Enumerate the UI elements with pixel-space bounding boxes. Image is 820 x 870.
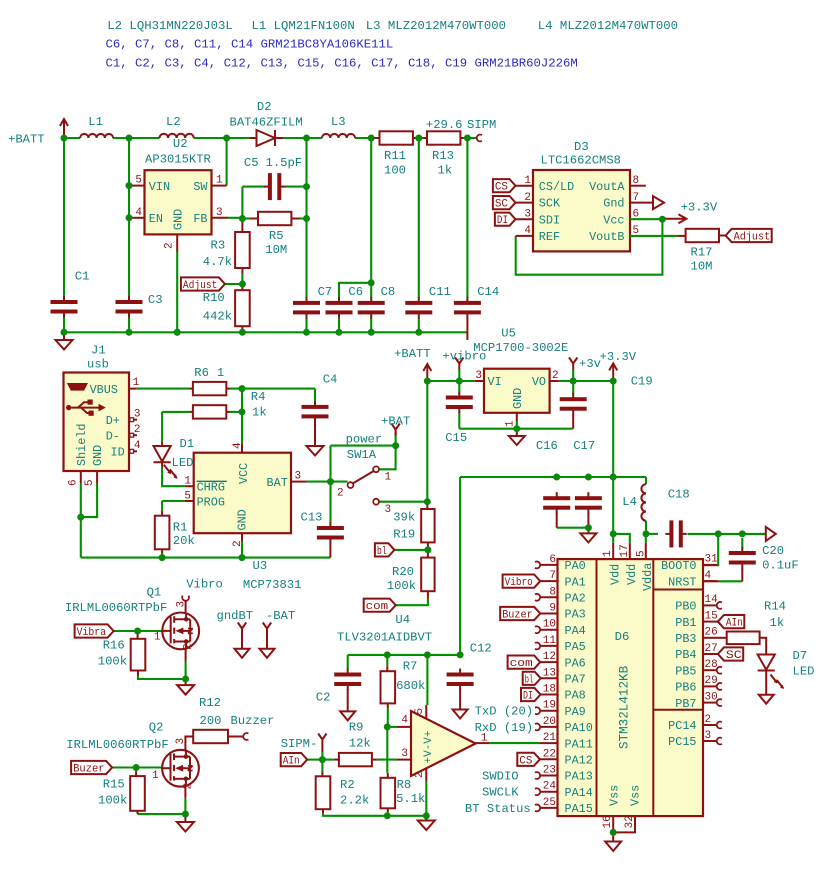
svg-text:L4: L4 bbox=[622, 495, 637, 509]
svg-text:VCC: VCC bbox=[237, 463, 251, 484]
svg-text:11: 11 bbox=[543, 635, 557, 647]
svg-text:PA13: PA13 bbox=[565, 770, 593, 784]
svg-text:C18: C18 bbox=[668, 487, 690, 501]
svg-text:bl: bl bbox=[377, 546, 387, 558]
svg-text:1k: 1k bbox=[252, 406, 267, 420]
svg-text:U5: U5 bbox=[501, 326, 516, 340]
svg-text:GND: GND bbox=[91, 445, 105, 466]
svg-text:25: 25 bbox=[543, 797, 556, 809]
svg-text:BT Status: BT Status bbox=[465, 802, 531, 816]
svg-text:R14: R14 bbox=[764, 600, 786, 614]
svg-text:BOOT0: BOOT0 bbox=[661, 559, 696, 573]
svg-text:C7: C7 bbox=[318, 285, 333, 299]
svg-text:+29.6: +29.6 bbox=[426, 118, 463, 132]
svg-text:SIPM-: SIPM- bbox=[281, 737, 318, 751]
svg-text:Vibro: Vibro bbox=[186, 578, 223, 592]
svg-text:R5: R5 bbox=[269, 229, 284, 243]
svg-text:3: 3 bbox=[524, 208, 531, 220]
svg-text:R12: R12 bbox=[199, 696, 221, 710]
svg-text:2: 2 bbox=[705, 714, 712, 726]
svg-text:+BATT: +BATT bbox=[394, 347, 431, 361]
svg-text:5: 5 bbox=[184, 490, 191, 502]
svg-text:R16: R16 bbox=[103, 638, 125, 652]
svg-text:0.1uF: 0.1uF bbox=[762, 559, 799, 573]
svg-text:Vdd: Vdd bbox=[609, 564, 623, 585]
svg-text:D1: D1 bbox=[180, 437, 195, 451]
svg-text:4: 4 bbox=[705, 570, 712, 582]
svg-text:C5: C5 bbox=[244, 156, 259, 170]
svg-text:SWCLK: SWCLK bbox=[482, 786, 519, 800]
svg-text:5.1k: 5.1k bbox=[396, 792, 425, 806]
svg-text:R4: R4 bbox=[251, 390, 266, 404]
svg-text:Vss: Vss bbox=[629, 785, 643, 806]
svg-text:C1, C2, C3, C4, C12, C13, C15,: C1, C2, C3, C4, C12, C13, C15, C16, C17,… bbox=[106, 56, 578, 70]
svg-text:CS: CS bbox=[495, 182, 508, 194]
svg-text:VoutA: VoutA bbox=[589, 180, 625, 194]
svg-text:PA2: PA2 bbox=[565, 592, 586, 606]
svg-text:GND: GND bbox=[171, 209, 185, 230]
svg-text:3: 3 bbox=[401, 748, 408, 760]
svg-text:L3 MLZ2012M470WT000: L3 MLZ2012M470WT000 bbox=[366, 19, 506, 33]
svg-text:R13: R13 bbox=[432, 149, 454, 163]
svg-text:IRLML0060RTPbF: IRLML0060RTPbF bbox=[65, 601, 167, 615]
svg-text:27: 27 bbox=[705, 643, 718, 655]
svg-text:3: 3 bbox=[175, 738, 187, 745]
svg-text:PA4: PA4 bbox=[565, 624, 586, 638]
svg-text:PA11: PA11 bbox=[565, 737, 593, 751]
svg-text:Gnd: Gnd bbox=[603, 197, 624, 211]
svg-text:Shield: Shield bbox=[75, 424, 89, 466]
svg-text:19: 19 bbox=[543, 700, 556, 712]
svg-text:PA15: PA15 bbox=[565, 802, 593, 816]
svg-text:16: 16 bbox=[602, 815, 614, 828]
svg-text:+vibro: +vibro bbox=[442, 350, 486, 364]
svg-text:MCP73831: MCP73831 bbox=[243, 578, 302, 592]
svg-text:L2: L2 bbox=[166, 115, 181, 129]
svg-text:2: 2 bbox=[164, 242, 176, 249]
svg-text:Q2: Q2 bbox=[149, 720, 164, 734]
svg-text:1k: 1k bbox=[770, 616, 785, 630]
svg-text:30: 30 bbox=[705, 691, 718, 703]
svg-text:D6: D6 bbox=[615, 630, 630, 644]
svg-text:PB7: PB7 bbox=[675, 697, 696, 711]
svg-text:PB5: PB5 bbox=[675, 664, 696, 678]
svg-text:3: 3 bbox=[134, 409, 141, 421]
svg-text:14: 14 bbox=[705, 594, 719, 606]
svg-text:GND: GND bbox=[236, 509, 250, 530]
svg-text:22: 22 bbox=[543, 748, 556, 760]
svg-text:LTC1662CMS8: LTC1662CMS8 bbox=[541, 154, 621, 168]
svg-text:Vss: Vss bbox=[608, 785, 622, 806]
svg-text:PROG: PROG bbox=[197, 495, 225, 509]
svg-text:C4: C4 bbox=[323, 373, 338, 387]
svg-text:PA0: PA0 bbox=[565, 559, 586, 573]
svg-text:C14: C14 bbox=[477, 285, 499, 299]
svg-text:5: 5 bbox=[636, 550, 648, 557]
svg-text:VoutB: VoutB bbox=[589, 230, 624, 244]
svg-text:20k: 20k bbox=[173, 534, 195, 548]
svg-text:Vibro: Vibro bbox=[505, 577, 533, 589]
svg-text:PA8: PA8 bbox=[565, 689, 586, 703]
svg-text:C6: C6 bbox=[348, 285, 363, 299]
svg-text:VO: VO bbox=[532, 375, 546, 389]
svg-text:SW1A: SW1A bbox=[347, 448, 377, 462]
svg-text:13: 13 bbox=[543, 667, 556, 679]
svg-text:BAT: BAT bbox=[267, 476, 288, 490]
svg-text:PB4: PB4 bbox=[675, 648, 696, 662]
svg-text:5: 5 bbox=[135, 175, 142, 187]
svg-text:SCK: SCK bbox=[539, 197, 561, 211]
svg-text:AP3015KTR: AP3015KTR bbox=[145, 153, 211, 167]
svg-text:TxD (20): TxD (20) bbox=[475, 705, 534, 719]
svg-text:LED: LED bbox=[172, 456, 194, 470]
svg-text:12: 12 bbox=[543, 651, 556, 663]
svg-text:3: 3 bbox=[176, 601, 188, 608]
svg-text:EN: EN bbox=[149, 212, 163, 226]
svg-text:1: 1 bbox=[505, 420, 517, 427]
svg-text:28: 28 bbox=[705, 659, 718, 671]
svg-text:6: 6 bbox=[68, 479, 80, 486]
svg-text:Adjust: Adjust bbox=[183, 280, 218, 292]
svg-text:1: 1 bbox=[385, 472, 392, 484]
svg-text:4: 4 bbox=[232, 442, 244, 449]
svg-text:R15: R15 bbox=[103, 778, 125, 792]
svg-text:D7: D7 bbox=[793, 649, 808, 663]
svg-text:2: 2 bbox=[183, 643, 195, 650]
svg-text:10: 10 bbox=[543, 619, 556, 631]
svg-text:100k: 100k bbox=[98, 654, 127, 668]
svg-text:6: 6 bbox=[549, 554, 556, 566]
svg-text:5: 5 bbox=[84, 479, 96, 486]
svg-text:4: 4 bbox=[135, 207, 142, 219]
svg-text:PA5: PA5 bbox=[565, 640, 586, 654]
svg-text:1: 1 bbox=[216, 175, 223, 187]
svg-text:C16: C16 bbox=[536, 439, 558, 453]
svg-text:200: 200 bbox=[200, 714, 222, 728]
svg-text:TLV3201AIDBVT: TLV3201AIDBVT bbox=[337, 630, 432, 644]
svg-text:R3: R3 bbox=[211, 238, 226, 252]
svg-text:L1 LQM21FN100N: L1 LQM21FN100N bbox=[252, 19, 355, 33]
svg-text:VIN: VIN bbox=[149, 180, 170, 194]
svg-text:DI: DI bbox=[497, 215, 508, 227]
svg-text:Adjust: Adjust bbox=[734, 232, 771, 244]
svg-text:L1: L1 bbox=[88, 115, 103, 129]
svg-text:Q1: Q1 bbox=[147, 586, 162, 600]
svg-text:PB1: PB1 bbox=[675, 616, 696, 630]
svg-text:2.2k: 2.2k bbox=[340, 794, 369, 808]
svg-text:SWDIO: SWDIO bbox=[482, 770, 519, 784]
svg-text:bl: bl bbox=[525, 674, 534, 686]
svg-text:VI: VI bbox=[488, 375, 502, 389]
svg-text:1: 1 bbox=[481, 733, 488, 745]
svg-text:21: 21 bbox=[543, 732, 557, 744]
svg-text:-BAT: -BAT bbox=[266, 609, 295, 623]
svg-text:+BAT: +BAT bbox=[381, 414, 410, 428]
svg-text:26: 26 bbox=[705, 627, 718, 639]
svg-text:9: 9 bbox=[549, 603, 556, 615]
svg-text:C17: C17 bbox=[573, 439, 595, 453]
svg-text:Buzer: Buzer bbox=[502, 610, 533, 622]
svg-text:PB6: PB6 bbox=[675, 681, 696, 695]
svg-text:24: 24 bbox=[543, 781, 557, 793]
svg-text:J1: J1 bbox=[91, 344, 106, 358]
svg-text:ID: ID bbox=[111, 446, 125, 460]
svg-text:1: 1 bbox=[524, 175, 531, 187]
svg-text:4.7k: 4.7k bbox=[203, 255, 232, 269]
svg-text:STM32L412KB: STM32L412KB bbox=[618, 665, 632, 749]
svg-text:R11: R11 bbox=[384, 149, 406, 163]
svg-text:U3: U3 bbox=[253, 559, 268, 573]
svg-text:R8: R8 bbox=[397, 778, 412, 792]
svg-text:SIPM: SIPM bbox=[467, 118, 496, 132]
svg-text:IRLML0060RTPbF: IRLML0060RTPbF bbox=[66, 738, 168, 752]
svg-text:NRST: NRST bbox=[668, 575, 696, 589]
svg-text:5: 5 bbox=[414, 708, 426, 715]
svg-text:PB0: PB0 bbox=[675, 600, 696, 614]
svg-text:PA9: PA9 bbox=[565, 705, 586, 719]
svg-text:D-: D- bbox=[106, 430, 120, 444]
svg-text:2: 2 bbox=[182, 783, 194, 790]
svg-text:2: 2 bbox=[524, 192, 531, 204]
svg-text:6: 6 bbox=[633, 208, 640, 220]
svg-text:8: 8 bbox=[549, 586, 556, 598]
svg-text:R7: R7 bbox=[403, 659, 418, 673]
svg-text:C19: C19 bbox=[631, 374, 653, 388]
svg-text:2: 2 bbox=[232, 540, 244, 547]
svg-text:3: 3 bbox=[475, 370, 482, 382]
svg-text:usb: usb bbox=[87, 358, 109, 372]
svg-text:R17: R17 bbox=[691, 245, 713, 259]
svg-text:Vcc: Vcc bbox=[603, 213, 624, 227]
svg-text:PA12: PA12 bbox=[565, 754, 593, 768]
svg-text:R20: R20 bbox=[392, 565, 414, 579]
svg-text:R6: R6 bbox=[194, 366, 209, 380]
svg-text:4: 4 bbox=[524, 225, 531, 237]
svg-text:29: 29 bbox=[705, 675, 718, 687]
svg-text:15: 15 bbox=[705, 610, 718, 622]
svg-text:4: 4 bbox=[401, 715, 408, 727]
svg-text:2: 2 bbox=[414, 771, 426, 778]
svg-text:L2 LQH31MN220J03L: L2 LQH31MN220J03L bbox=[107, 19, 232, 33]
svg-text:CS: CS bbox=[519, 755, 532, 767]
svg-text:R19: R19 bbox=[393, 527, 415, 541]
svg-text:1k: 1k bbox=[438, 164, 453, 178]
svg-text:com: com bbox=[510, 658, 533, 670]
svg-text:CS/LD: CS/LD bbox=[539, 180, 574, 194]
svg-text:C8: C8 bbox=[381, 285, 396, 299]
svg-text:D3: D3 bbox=[574, 140, 589, 154]
svg-text:PC15: PC15 bbox=[668, 735, 696, 749]
svg-text:C15: C15 bbox=[445, 431, 467, 445]
svg-text:100k: 100k bbox=[387, 579, 416, 593]
svg-text:1: 1 bbox=[602, 550, 614, 557]
svg-text:7: 7 bbox=[633, 192, 640, 204]
svg-text:4: 4 bbox=[134, 440, 141, 452]
svg-text:31: 31 bbox=[705, 554, 719, 566]
svg-text:REF: REF bbox=[539, 230, 560, 244]
svg-text:39k: 39k bbox=[393, 510, 415, 524]
svg-text:+3.3V: +3.3V bbox=[600, 350, 637, 364]
svg-text:PA10: PA10 bbox=[565, 721, 593, 735]
svg-text:C2: C2 bbox=[316, 690, 331, 704]
svg-text:+3v: +3v bbox=[579, 357, 601, 371]
svg-text:C13: C13 bbox=[301, 511, 323, 525]
svg-text:SC: SC bbox=[726, 650, 742, 662]
svg-text:32: 32 bbox=[624, 815, 636, 828]
svg-text:C20: C20 bbox=[762, 544, 784, 558]
svg-text:100: 100 bbox=[384, 164, 406, 178]
svg-text:C3: C3 bbox=[148, 293, 163, 307]
svg-text:U4: U4 bbox=[395, 613, 410, 627]
svg-text:L3: L3 bbox=[331, 115, 346, 129]
svg-text:18: 18 bbox=[543, 684, 556, 696]
svg-text:10M: 10M bbox=[265, 243, 287, 257]
svg-text:LED: LED bbox=[793, 665, 815, 679]
svg-text:R9: R9 bbox=[349, 720, 364, 734]
svg-text:8: 8 bbox=[633, 175, 640, 187]
svg-text:7: 7 bbox=[549, 570, 556, 582]
svg-text:Buzzer: Buzzer bbox=[231, 714, 275, 728]
svg-text:L4 MLZ2012M470WT000: L4 MLZ2012M470WT000 bbox=[538, 19, 678, 33]
svg-text:FB: FB bbox=[193, 212, 207, 226]
svg-text:R1: R1 bbox=[173, 520, 188, 534]
svg-text:R2: R2 bbox=[340, 778, 355, 792]
svg-text:20: 20 bbox=[543, 716, 556, 728]
svg-text:PA1: PA1 bbox=[565, 575, 586, 589]
svg-text:PC14: PC14 bbox=[668, 719, 696, 733]
svg-text:C1: C1 bbox=[75, 269, 90, 283]
svg-text:2: 2 bbox=[134, 424, 141, 436]
svg-text:C6, C7, C8, C11, C14 GRM21BC8Y: C6, C7, C8, C11, C14 GRM21BC8YA106KE11L bbox=[106, 38, 394, 52]
svg-text:1: 1 bbox=[217, 366, 224, 380]
svg-text:+V-V+: +V-V+ bbox=[423, 730, 435, 763]
svg-text:2: 2 bbox=[337, 488, 344, 500]
svg-text:SDI: SDI bbox=[539, 213, 560, 227]
svg-text:10M: 10M bbox=[691, 260, 713, 274]
svg-text:power: power bbox=[346, 433, 383, 447]
svg-text:AIn: AIn bbox=[283, 756, 300, 768]
svg-text:Buzer: Buzer bbox=[73, 764, 105, 776]
svg-text:MCP1700-3002E: MCP1700-3002E bbox=[473, 341, 568, 355]
svg-text:CHRG: CHRG bbox=[197, 480, 225, 494]
svg-text:3: 3 bbox=[385, 504, 392, 516]
svg-text:Vdd: Vdd bbox=[625, 564, 639, 585]
svg-text:DI: DI bbox=[523, 691, 533, 703]
svg-text:SC: SC bbox=[495, 199, 508, 211]
svg-text:R10: R10 bbox=[203, 291, 225, 305]
svg-text:+BATT: +BATT bbox=[8, 133, 45, 147]
svg-text:BAT46ZFILM: BAT46ZFILM bbox=[230, 116, 303, 130]
svg-text:1: 1 bbox=[152, 770, 159, 782]
svg-text:C11: C11 bbox=[429, 285, 451, 299]
svg-text:5: 5 bbox=[633, 225, 640, 237]
svg-text:SW: SW bbox=[193, 180, 208, 194]
svg-text:PA7: PA7 bbox=[565, 673, 586, 687]
svg-text:C12: C12 bbox=[470, 641, 492, 655]
svg-text:680k: 680k bbox=[396, 679, 425, 693]
svg-text:17: 17 bbox=[619, 544, 631, 557]
svg-text:GND: GND bbox=[511, 388, 525, 409]
svg-text:1: 1 bbox=[154, 632, 161, 644]
svg-text:gndBT: gndBT bbox=[217, 609, 254, 623]
svg-text:1: 1 bbox=[184, 475, 191, 487]
svg-text:com: com bbox=[366, 601, 389, 613]
svg-text:2: 2 bbox=[552, 370, 559, 382]
svg-text:23: 23 bbox=[543, 765, 556, 777]
svg-text:442k: 442k bbox=[203, 309, 232, 323]
svg-text:3: 3 bbox=[216, 207, 223, 219]
svg-text:100k: 100k bbox=[98, 794, 127, 808]
svg-text:1.5pF: 1.5pF bbox=[266, 156, 303, 170]
svg-text:VBUS: VBUS bbox=[90, 383, 118, 397]
svg-text:PB3: PB3 bbox=[675, 632, 696, 646]
svg-text:Vibra: Vibra bbox=[77, 627, 107, 639]
svg-text:U2: U2 bbox=[173, 137, 188, 151]
svg-text:AIn: AIn bbox=[726, 618, 743, 630]
svg-text:PA3: PA3 bbox=[565, 608, 586, 622]
svg-text:PA6: PA6 bbox=[565, 656, 586, 670]
svg-text:D+: D+ bbox=[106, 414, 120, 428]
svg-text:+3.3V: +3.3V bbox=[681, 201, 718, 215]
svg-text:1: 1 bbox=[133, 377, 140, 389]
svg-text:3: 3 bbox=[295, 470, 302, 482]
svg-text:D2: D2 bbox=[257, 100, 272, 114]
svg-text:Vdda: Vdda bbox=[641, 563, 655, 591]
svg-text:PA14: PA14 bbox=[565, 786, 593, 800]
svg-text:12k: 12k bbox=[349, 736, 371, 750]
svg-text:3: 3 bbox=[705, 730, 712, 742]
